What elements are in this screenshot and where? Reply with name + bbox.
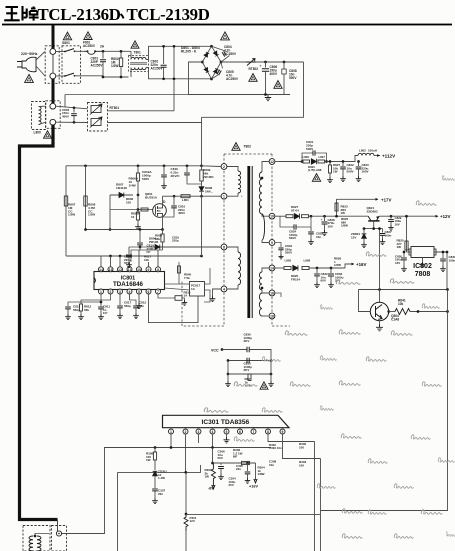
- grounds of loop: [227, 374, 229, 381]
- T802 secondary pin 10: [269, 213, 275, 219]
- pin risers IC801 top: [100, 256, 102, 267]
- svg-text:+16V: +16V: [356, 262, 366, 267]
- pin8/9 wires right: [268, 434, 315, 442]
- wire plug to connector: [36, 52, 45, 61]
- svg-text:Q804C1A8: Q804C1A8: [391, 314, 399, 321]
- loop box wires: [228, 360, 271, 362]
- svg-text:7: 7: [157, 290, 159, 294]
- svg-text:2: 2: [185, 430, 187, 434]
- diode D804: [213, 68, 218, 73]
- wire rail to pin2: [202, 165, 222, 168]
- svg-text:L808: L808: [304, 259, 311, 263]
- T802 secondary winding bottom: [269, 265, 275, 271]
- feedback line y250: [131, 250, 140, 262]
- svg-text:C810220n400V: C810220n400V: [178, 205, 186, 215]
- mains return bus (thick) down left side: [20, 125, 58, 519]
- IC301 pin 5: [224, 429, 229, 434]
- svg-text:+12V: +12V: [440, 214, 450, 219]
- svg-text:TDA16846: TDA16846: [113, 281, 143, 288]
- IC301 pin 4: [210, 429, 215, 434]
- inductor L803: [286, 215, 293, 218]
- IC301 pin 1: [169, 429, 174, 434]
- svg-text:8: 8: [157, 268, 159, 272]
- IC301 pin 8: [266, 429, 271, 434]
- drain wire up to y196 line: [162, 196, 164, 206]
- svg-text:+112V: +112V: [382, 154, 396, 159]
- IC301 pin2 drop: [185, 434, 187, 472]
- IC301 pin4 drop to node row: [212, 434, 214, 448]
- title underline: [2, 24, 452, 26]
- +112V output arrow: [374, 155, 380, 157]
- switch contacts: [56, 51, 65, 53]
- svg-text:+17V: +17V: [381, 197, 391, 202]
- svg-text:100uH: 100uH: [368, 149, 377, 153]
- svg-text:9: 9: [271, 241, 273, 245]
- +16V arrow: [255, 463, 257, 480]
- svg-text:T802: T802: [244, 144, 252, 148]
- pin6 loop wire to opto: [149, 294, 199, 323]
- inductor L804: [302, 215, 309, 218]
- wire degauss bottom node: [56, 121, 88, 123]
- svg-text:D82797-04: D82797-04: [291, 205, 299, 212]
- -8V arrow: [212, 482, 215, 489]
- degauss connector (dashed): [46, 101, 60, 129]
- svg-text:5: 5: [138, 290, 140, 294]
- switch S801 (dashed box): [63, 32, 71, 40]
- IC801 pin 8: [156, 267, 161, 272]
- wire RT801 bottom out: [108, 122, 202, 124]
- svg-text:TCL-2139D: TCL-2139D: [127, 5, 210, 24]
- IC301 pin 7: [251, 429, 256, 434]
- IC801 pin 2: [108, 289, 113, 294]
- wire drain line from mosfet to y196: [163, 195, 175, 197]
- svg-text:7808: 7808: [415, 271, 431, 278]
- IC801 pin 13: [108, 267, 113, 272]
- svg-text:R8084.7MCC1/2W: R8084.7MCC1/2W: [88, 203, 96, 217]
- wire pin2 node down to P301: [185, 472, 187, 514]
- source wire down: [162, 216, 164, 230]
- warning triangle: [312, 174, 320, 182]
- svg-text:T801: T801: [134, 51, 141, 55]
- svg-text:8: 8: [267, 430, 269, 434]
- wire to output: [327, 156, 359, 162]
- svg-text:220~50Hz: 220~50Hz: [21, 52, 38, 56]
- IC301 pin5 ground: [226, 434, 228, 437]
- connector XS801 (dashed): [45, 46, 59, 84]
- svg-text:C819220p: C819220p: [172, 236, 179, 243]
- wire pin12 rail y161.5: [279, 161, 302, 163]
- emitter ground: [379, 321, 381, 324]
- svg-text:5: 5: [226, 430, 228, 434]
- mains bus wire (thick) title to connector: [52, 25, 55, 49]
- wire emitter-side to R841: [389, 311, 395, 313]
- node: primary top rail y166: [66, 165, 202, 167]
- svg-text:14: 14: [270, 266, 274, 270]
- T802 secondary winding top (pin 12): [269, 159, 275, 165]
- positive rail from bridge right: [221, 61, 246, 63]
- svg-text:13: 13: [109, 268, 113, 272]
- svg-text:TCL-2136D: TCL-2136D: [38, 5, 121, 24]
- wire fuse to T801: [102, 50, 131, 52]
- T802 primary winding pin2-pin1: [221, 164, 227, 170]
- svg-text:1: 1: [100, 290, 102, 294]
- fuse F801 AC250V 2A: [84, 32, 92, 40]
- IC801 pin 5: [137, 289, 142, 294]
- IC301 pin 2: [183, 429, 188, 434]
- wire y289 rail: [359, 289, 448, 291]
- PTC RT801 (dashed box, two elements): [88, 103, 108, 132]
- svg-text:-8V: -8V: [208, 487, 214, 491]
- negative rail left extension to degauss: [65, 94, 189, 96]
- svg-text:14: 14: [99, 268, 103, 272]
- svg-text:L805: L805: [285, 259, 292, 263]
- svg-text:4: 4: [129, 290, 131, 294]
- bottom deflection coil (dashed): [23, 526, 50, 551]
- wire y514 to bottom-right box: [186, 513, 321, 515]
- svg-text:L807: L807: [319, 155, 326, 159]
- svg-text:L801: L801: [182, 198, 189, 202]
- IC801 pin 14: [99, 267, 104, 272]
- IC801 pin 4: [127, 289, 132, 294]
- svg-text:C821220p500V: C821220p500V: [306, 140, 314, 151]
- long bottom-left feed wires: [62, 448, 105, 534]
- base drop and bias row: [373, 222, 375, 229]
- svg-text:16: 16: [270, 291, 274, 295]
- svg-text:RT801: RT801: [110, 106, 120, 110]
- IC801 pin 9: [146, 267, 151, 272]
- IC301 pin1 wire left: [104, 434, 171, 448]
- svg-text:6: 6: [239, 430, 241, 434]
- svg-text:9: 9: [282, 430, 284, 434]
- degauss coil L800 (dashed): [32, 102, 46, 130]
- IC801 pin 6: [146, 289, 151, 294]
- warning triangle below plug: [25, 74, 34, 82]
- svg-text:+16V: +16V: [249, 485, 258, 489]
- node at emitter right: [387, 310, 390, 313]
- T802 secondary pin 9: [269, 240, 275, 246]
- svg-text:11: 11: [128, 268, 132, 272]
- svg-text:C827100n: C827100n: [385, 230, 393, 237]
- base wire from y289: [359, 290, 371, 312]
- IC301 pin3 stub: [198, 434, 200, 443]
- svg-text:3: 3: [119, 290, 121, 294]
- wire y196 pin1 to L801: [174, 195, 222, 197]
- wire R841 to right vertical: [410, 311, 448, 313]
- svg-text:L800: L800: [34, 131, 41, 135]
- line filter transformer T801: [131, 41, 139, 48]
- svg-text:IC301 TDA8356: IC301 TDA8356: [202, 419, 250, 426]
- wire T802 pin4 to ground: [213, 289, 222, 296]
- transformer T802 (dashed boundary): [232, 143, 240, 151]
- pin 16 stub hook: [275, 293, 281, 297]
- wire opto right to vcc: [205, 268, 211, 284]
- svg-text:D8081N4...: D8081N4...: [205, 186, 213, 193]
- T802 aux winding pin8-pin4: [221, 244, 227, 250]
- +17V branch: [337, 199, 377, 216]
- node row y229: [86, 229, 163, 231]
- bottom connector circle: [56, 531, 61, 536]
- IC301 TDA8356 package: [163, 415, 290, 427]
- wire C810 down to drain line: [163, 214, 175, 217]
- IC301 pin 9: [280, 429, 285, 434]
- degauss to ground-line riser: [64, 95, 66, 108]
- wire HV riser to C814 node: [201, 196, 203, 256]
- svg-text:C834220p500V: C834220p500V: [285, 244, 293, 254]
- IC801 TDA16846: [94, 272, 165, 290]
- T802 core: [247, 166, 250, 318]
- wire connector to degauss connector (thick): [52, 79, 55, 103]
- resistor R819: [158, 294, 175, 298]
- svg-text:18: 18: [270, 314, 274, 318]
- wire +12V rail to IC802 input: [406, 216, 408, 252]
- transistor Q804 collector riser: [379, 229, 381, 302]
- HV rail riser down to primary: [201, 117, 203, 166]
- bus drop to bottom connector: [57, 520, 59, 532]
- svg-text:C806150u400V: C806150u400V: [270, 65, 278, 76]
- warning triangle: [260, 382, 268, 389]
- svg-text:C817560p: C817560p: [124, 301, 132, 308]
- svg-text:VCC: VCC: [211, 349, 219, 353]
- diode D802: [213, 51, 218, 56]
- degauss feed riser: [173, 46, 175, 111]
- svg-text:4: 4: [212, 430, 214, 434]
- transistor Q804 C1815: [370, 302, 388, 320]
- svg-text:7: 7: [253, 430, 255, 434]
- svg-text:+: +: [259, 64, 262, 69]
- emitter wire to +12V: [379, 215, 436, 217]
- diode D803: [204, 68, 209, 73]
- wire pin5/6/7 stubs: [138, 294, 140, 303]
- wire pin10 rail y216: [275, 215, 286, 217]
- svg-text:10: 10: [137, 268, 141, 272]
- wire T802 pin8 y247: [150, 246, 221, 248]
- IC301 pin 3: [196, 429, 201, 434]
- node row y463: [213, 462, 255, 464]
- title: 王牌 TCL-2136D, TCL-2139D: [4, 6, 38, 21]
- svg-text:3: 3: [198, 430, 200, 434]
- wire opto to IC: [165, 283, 190, 285]
- wire R807 bottom to node line: [66, 255, 101, 257]
- svg-text:C803150n400V: C803150n400V: [62, 108, 70, 118]
- svg-text:1: 1: [223, 195, 225, 199]
- pin 12 stub hook: [275, 161, 279, 163]
- IC801 pin 7: [156, 289, 161, 294]
- svg-text:C831100n: C831100n: [449, 255, 455, 262]
- svg-text:9: 9: [148, 268, 150, 272]
- wire pin14 rail y268: [275, 267, 284, 269]
- IC802 output wire: [434, 252, 447, 289]
- ground at negative rail: [265, 95, 271, 101]
- +16V output: [345, 264, 352, 268]
- svg-text:L802: L802: [359, 149, 366, 153]
- IC802 7808 regulator: [411, 247, 434, 258]
- wire RT801 top out to degauss feed riser: [108, 110, 175, 112]
- wire from source node to pickup line y250: [140, 249, 163, 251]
- svg-text:4: 4: [223, 287, 225, 291]
- svg-text:RT802: RT802: [249, 67, 259, 71]
- svg-text:12: 12: [118, 268, 122, 272]
- node line y256 above IC801: [101, 255, 202, 257]
- svg-text:10: 10: [270, 215, 274, 219]
- IC801 pin 10: [137, 267, 142, 272]
- svg-text:8: 8: [223, 245, 225, 249]
- IC801 pin 11: [127, 267, 132, 272]
- svg-text:S801: S801: [62, 41, 70, 45]
- bottom right verticals: [314, 442, 316, 551]
- svg-text:C823220u160V: C823220u160V: [362, 163, 370, 173]
- IC301 pin 6: [238, 429, 243, 434]
- IC801 pin 1: [99, 289, 104, 294]
- svg-text:12: 12: [270, 160, 274, 164]
- IC801 pin 3: [118, 289, 123, 294]
- right-side bus down: [321, 290, 448, 511]
- diode D801: [204, 52, 209, 57]
- svg-text:2A: 2A: [100, 45, 105, 49]
- decorative watermarks (scan artifact): [442, 176, 454, 181]
- negative rail from bridge left: [189, 62, 291, 95]
- wire degauss top to C803/RT801: [56, 106, 88, 109]
- svg-text:2: 2: [223, 165, 225, 169]
- svg-text:L806: L806: [303, 155, 310, 159]
- IC801 pin 12: [118, 267, 123, 272]
- HV rail: right corner down and left: [202, 62, 304, 117]
- resistor R840: [178, 262, 180, 284]
- svg-text:1: 1: [170, 430, 172, 434]
- IC802 ground pin: [422, 258, 424, 263]
- svg-text:2: 2: [110, 290, 112, 294]
- svg-text:6: 6: [148, 290, 150, 294]
- snubber loop wire C816: [187, 181, 202, 184]
- diode D821 BYV28: [311, 159, 316, 164]
